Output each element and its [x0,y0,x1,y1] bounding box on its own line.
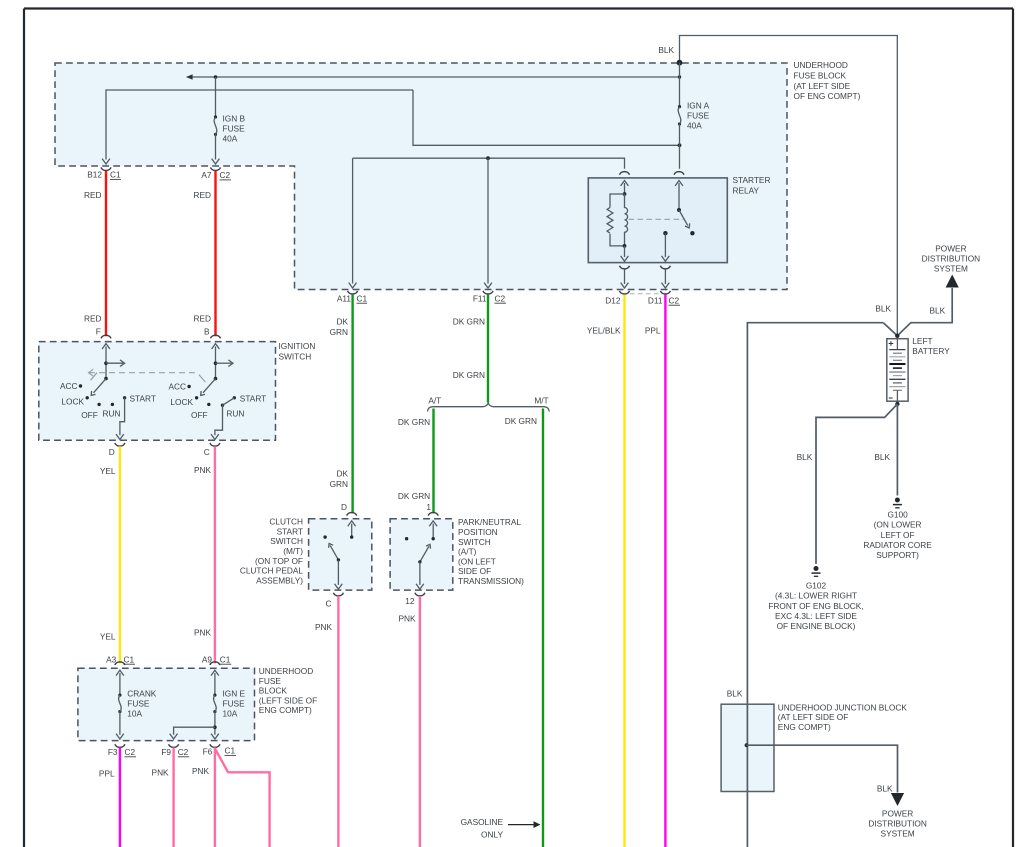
junction: junction block tap [745,743,749,747]
wire: feed line with left arrow (y=77) [187,76,680,78]
ignition sw1 ACC contact [79,384,82,387]
svg-text:C: C [204,447,210,457]
svg-text:BATTERY: BATTERY [912,346,950,356]
arrowhead ignition sw2 lever [201,391,205,395]
arrowhead P/N input (up) [429,521,437,526]
fuse IGN A 40A [678,105,681,108]
wire: relay output lead [664,233,666,257]
svg-text:C: C [326,598,332,608]
wire: output pin to D11 [664,270,666,285]
svg-text:40A: 40A [687,121,702,131]
ignition sw1 RUN contact [111,403,114,406]
wire PNK F6 down [214,747,216,847]
arrowhead into F11 connector [484,283,492,288]
svg-text:PNK: PNK [315,622,333,632]
svg-text:YEL: YEL [100,466,116,476]
svg-text:LEFT: LEFT [912,336,932,346]
connector arc ignition F [101,335,111,338]
wire PNK P/N 12 down [419,596,421,847]
clutch pivot [337,558,340,561]
svg-text:F6: F6 [203,746,213,756]
ignition sw1 OFF contact [97,403,100,406]
svg-text:BLK: BLK [797,452,813,462]
junction: coil/resistor top [623,192,627,196]
svg-text:M/T: M/T [534,395,548,405]
relay switch lever [679,210,688,225]
wire DK GRN F11 to split [487,295,489,403]
svg-text:PNK: PNK [192,766,210,776]
svg-text:UNDERHOOD JUNCTION BLOCK: UNDERHOOD JUNCTION BLOCK [778,703,908,713]
P/N input contact [432,537,435,540]
svg-text:LOCK: LOCK [170,397,193,407]
wire BLK battery neg to G100 [896,404,898,496]
wire: IGN B fuse wire [215,77,217,117]
split brace A/T-M/T [428,403,550,412]
svg-text:RUN: RUN [226,408,244,418]
arrowhead coil lead at box bottom [621,256,629,261]
junction: BLK feed enters fuse block [677,60,683,66]
svg-text:C2: C2 [495,293,506,303]
connector arc clutch D [347,512,357,515]
connector C2 dashed link D12-D11 [630,293,660,295]
battery U1 (LEFT BATTERY) box [887,339,908,402]
starter relay box [588,178,727,263]
svg-text:OFF: OFF [191,410,208,420]
wire junction block to power distribution (bottom) [747,745,898,792]
junction: F11 branch on relay feed line [486,156,490,160]
svg-text:CLUTCH: CLUTCH [269,517,303,527]
ignition sw1 START contact [123,396,126,399]
ground G102 symbol [814,566,819,571]
connector arc clutch C [333,593,343,596]
svg-text:SYSTEM: SYSTEM [934,264,968,274]
svg-text:TRANSMISSION): TRANSMISSION) [458,576,524,586]
arrowhead P/N output (down) [416,584,424,589]
svg-text:C2: C2 [178,747,189,757]
svg-text:DK GRN: DK GRN [453,370,485,380]
arrowhead into A11 connector [349,283,357,288]
svg-text:ACC: ACC [60,381,78,391]
wire through junction block [746,704,748,791]
wire: relay coil bottom lead [624,246,626,257]
svg-text:C1: C1 [220,654,231,664]
svg-text:FUSE BLOCK: FUSE BLOCK [794,71,847,81]
svg-text:F11: F11 [473,294,487,304]
battery + mark [889,341,894,346]
svg-text:(ON LOWER: (ON LOWER [874,520,922,530]
wire PNK F6 jog right & down [215,749,270,847]
svg-text:RED: RED [193,313,211,323]
wire crank fuse top lead [119,673,121,695]
svg-text:DK GRN: DK GRN [398,417,430,427]
svg-text:D: D [341,502,347,512]
wire: A11 branch [352,158,354,283]
junction: battery positive node [895,334,899,338]
wire PNK F9 down [172,747,174,847]
ground G100 symbol [895,498,900,503]
svg-text:A3: A3 [106,654,117,664]
svg-text:RADIATOR CORE: RADIATOR CORE [863,540,932,550]
wire: relay coil top lead [624,183,626,194]
svg-text:C1: C1 [225,746,236,756]
svg-text:C2: C2 [125,747,136,757]
ignition sw1 lever [94,379,107,393]
mechanical linkage (dashed) between switch halves [89,372,195,374]
arrowhead output lead at box bottom [662,256,670,261]
svg-text:BLK: BLK [874,452,890,462]
arrowhead ignition sw1 lever [91,391,95,395]
svg-text:RED: RED [193,190,211,200]
svg-text:FUSE: FUSE [259,676,282,686]
svg-text:(A/T): (A/T) [458,547,477,557]
svg-text:BLOCK: BLOCK [259,686,288,696]
svg-text:START: START [130,393,156,403]
ignition switch box [39,342,276,441]
underhood fuse block (top) body [55,63,787,290]
wire PNK clutch C down [337,596,339,847]
svg-text:PPL: PPL [645,326,661,336]
svg-text:1: 1 [426,502,431,512]
svg-text:BLK: BLK [727,689,743,699]
battery bottom stub [896,390,898,404]
svg-text:(ON TOP OF: (ON TOP OF [255,556,303,566]
svg-text:F: F [96,326,101,336]
svg-text:(M/T): (M/T) [283,546,303,556]
wire BLK battery neg to G102 [816,404,897,564]
wire ignition sw1 START to D [120,398,125,436]
svg-text:C1: C1 [357,293,368,303]
wire: relay switch input lead [678,183,680,210]
svg-text:PARK/NEUTRAL: PARK/NEUTRAL [458,517,521,527]
svg-text:YEL: YEL [100,631,116,641]
svg-text:PNK: PNK [194,628,212,638]
svg-text:CLUTCH PEDAL: CLUTCH PEDAL [240,566,304,576]
svg-text:PNK: PNK [194,465,212,475]
fuse CRANK 10A [118,694,121,697]
svg-text:A7: A7 [201,170,212,180]
svg-text:START: START [277,526,303,536]
svg-text:PPL: PPL [99,768,115,778]
gasoline-only pointer [508,824,535,826]
svg-text:GRN: GRN [330,479,348,489]
resistor (relay suppression) [610,194,625,208]
svg-text:F3: F3 [108,747,118,757]
relay stationary contact [690,231,694,235]
svg-text:FUSE: FUSE [687,111,710,121]
wire IGN E fuse top lead [214,673,216,695]
wire: BLK battery feed (top) [680,36,898,336]
arrowhead to power distribution (up) [946,275,959,288]
junction: feed line meets IGN A wire [678,75,681,78]
svg-text:ONLY: ONLY [481,829,503,839]
svg-text:EXC 4.3L: LEFT SIDE: EXC 4.3L: LEFT SIDE [775,611,857,621]
arrowhead into A7 connector [212,159,220,164]
svg-text:12: 12 [405,596,415,606]
wire clutch output lead [337,560,339,585]
wire ignition sw2 START to C [215,398,234,436]
connector arc F9 [169,744,179,747]
svg-text:SWITCH: SWITCH [458,537,491,547]
arrowhead F9 output (down) [170,734,178,739]
connector arc below relay coil pin [620,266,630,269]
wire YEL/BLK D12 down [623,295,625,847]
svg-text:SYSTEM: SYSTEM [881,829,915,839]
svg-text:BLK: BLK [877,784,893,794]
battery - mark [889,397,893,399]
svg-text:PNK: PNK [398,614,416,624]
svg-text:FUSE: FUSE [127,699,150,709]
connector arc A3 [115,662,125,665]
park/neutral position switch box [390,519,453,590]
wire PNK ignition C to A9 [214,446,216,663]
wire: coil pin to D12 [624,270,626,285]
wire branch to power distribution (top right) [897,288,952,336]
underhood fuse block (lower) body [78,668,255,740]
svg-text:DISTRIBUTION: DISTRIBUTION [922,253,981,263]
svg-text:DK GRN: DK GRN [453,316,485,326]
arrowhead ignition sw2 output [211,434,219,439]
wire battery positive merge [883,323,897,336]
svg-text:ACC: ACC [168,382,186,392]
svg-text:BLK: BLK [875,304,891,314]
svg-text:OF ENGINE BLOCK): OF ENGINE BLOCK) [777,621,856,631]
wire IGN E fuse bottom lead [214,712,216,735]
svg-text:LEFT OF: LEFT OF [881,530,915,540]
svg-text:C2: C2 [220,170,231,180]
arrowhead clutch lever [329,543,334,547]
arrowhead on feed line [186,74,192,80]
ignition sw2 ACC contact [187,385,190,388]
P/N open contact [405,537,408,540]
connector arc P/N pin 12 [415,593,425,596]
svg-text:DISTRIBUTION: DISTRIBUTION [868,818,927,828]
connector arc ignition C [210,443,220,446]
svg-text:B12: B12 [87,170,102,180]
svg-text:RED: RED [84,313,102,323]
svg-text:CRANK: CRANK [127,689,157,699]
connector D12 arcs [620,291,630,294]
svg-text:PNK: PNK [152,768,170,778]
svg-text:(LEFT SIDE OF: (LEFT SIDE OF [259,695,317,705]
wire RED B12 to ignition F [105,171,107,337]
svg-text:UNDERHOOD: UNDERHOOD [794,60,848,70]
junction: y=145 line meets IGN A wire [678,143,682,147]
ignition sw2 OFF contact [207,403,210,406]
svg-text:A/T: A/T [428,395,441,405]
fuse IGN E 10A [213,694,216,697]
wire P/N input lead [432,524,434,539]
svg-text:SUPPORT): SUPPORT) [876,550,919,560]
svg-text:FUSE: FUSE [223,124,246,134]
svg-text:B: B [204,326,210,336]
clutch open contact [323,535,326,538]
connector arc above relay switch pin [674,172,684,175]
svg-text:RED: RED [84,190,102,200]
svg-text:IGN E: IGN E [223,689,246,699]
junction: IGN B wire on feed line [214,75,218,79]
wire BLK to junction block [747,323,883,847]
svg-text:BLK: BLK [658,45,674,55]
svg-text:POWER: POWER [935,243,966,253]
wire clutch input lead [351,524,353,538]
wire DK GRN A11 to clutch switch D [351,295,353,514]
svg-text:SIDE OF: SIDE OF [458,566,491,576]
connector arc A9 [210,662,220,665]
connector arc ignition D [115,443,125,446]
P/N pivot [418,560,421,563]
svg-text:STARTER: STARTER [733,175,771,185]
svg-text:DK GRN: DK GRN [505,416,537,426]
wire: IGN A fuse wire upper [679,63,681,107]
svg-text:FUSE: FUSE [223,699,246,709]
fuse IGN B 40A [214,115,217,118]
underhood junction block box [721,704,774,791]
arrowhead P/N lever [426,544,431,548]
connector arc P/N pin 1 [428,512,438,515]
arrowhead clutch output (down) [335,584,343,589]
svg-text:START: START [240,393,266,403]
svg-text:ENG COMPT): ENG COMPT) [259,705,312,715]
connector F11/C2 arcs [483,291,493,294]
arrowhead A9 input (up) [211,670,219,675]
P/N lever [420,546,429,562]
svg-text:POWER: POWER [882,808,913,818]
svg-text:D12: D12 [605,295,621,305]
junction: IGN E branch [213,725,217,729]
svg-text:DK: DK [336,316,348,326]
svg-text:SWITCH: SWITCH [270,536,303,546]
svg-text:YEL/BLK: YEL/BLK [587,326,621,336]
svg-text:BLK: BLK [930,306,946,316]
wire P/N output lead [419,562,421,585]
arrowhead into B12 connector [102,159,110,164]
arrowhead on linkage (left) [89,369,94,376]
ignition sw1 input arrow/wires [102,344,110,349]
svg-text:G100: G100 [887,510,908,520]
svg-text:GASOLINE: GASOLINE [461,817,504,827]
svg-text:D11: D11 [648,295,663,305]
svg-text:UNDERHOOD: UNDERHOOD [259,666,313,676]
svg-text:C2: C2 [669,295,680,305]
svg-text:(4.3L: LOWER RIGHT: (4.3L: LOWER RIGHT [775,591,857,601]
svg-text:D: D [109,447,115,457]
wire DK GRN M/T branch [542,409,544,847]
svg-text:LOCK: LOCK [61,397,84,407]
svg-text:DK: DK [336,469,348,479]
clutch start switch box [309,519,372,590]
wire: IGN B fuse to A7 connector [215,134,217,159]
arrowhead clutch input (up) [348,521,356,526]
wire PPL F3 down [119,747,121,847]
connector A7/C2 arcs [211,167,221,170]
wire: jog down to y=145 then to IGN A node [413,90,680,145]
svg-text:G102: G102 [806,581,827,591]
wire RED A7 to ignition B [214,171,216,337]
svg-text:OFF: OFF [81,410,98,420]
svg-text:(AT LEFT SIDE OF: (AT LEFT SIDE OF [778,712,849,722]
clutch input contact [350,535,353,538]
ignition sw2 LOCK contact [195,396,198,399]
svg-text:ENG COMPT): ENG COMPT) [778,722,831,732]
arrowhead A3 input (up) [116,670,124,675]
arrowhead F6 output (down) [211,734,219,739]
arrowhead relay switch pin (up) [675,181,683,186]
svg-text:10A: 10A [223,709,238,719]
svg-text:40A: 40A [223,134,238,144]
ignition sw1 LOCK contact [86,396,89,399]
wire branch to F9 [174,727,215,735]
svg-text:C1: C1 [110,170,121,180]
connector A11/C1 arcs [348,291,358,294]
wire DK GRN A/T branch [432,409,434,514]
arrowhead on relay lever [685,223,690,228]
arrowhead F3 output (down) [116,734,124,739]
ignition sw2 lever [203,379,216,393]
battery plates [889,349,905,351]
svg-text:RELAY: RELAY [733,185,760,195]
ignition sw2 RUN contact [221,404,224,407]
svg-text:C1: C1 [124,654,135,664]
svg-text:(ON LEFT: (ON LEFT [458,556,496,566]
junction: coil/resistor bottom [623,244,627,248]
arrowhead to power distribution (down) [891,793,904,806]
svg-text:GRN: GRN [330,327,348,337]
connector arc ignition B [211,335,221,338]
svg-text:F9: F9 [161,747,171,757]
svg-text:IGN B: IGN B [223,114,246,124]
arrowhead into D11 [662,283,670,288]
mechanical link coil-to-armature (dashed) [629,218,684,220]
wire: B12 branch (down from y=90 corner) [106,90,413,160]
wire PPL D11 down [664,295,666,847]
connector arc F3 [115,744,125,747]
svg-text:FRONT OF ENG BLOCK,: FRONT OF ENG BLOCK, [768,601,863,611]
connector B12/C1 arcs [101,167,111,170]
svg-text:RUN: RUN [103,408,121,418]
svg-text:DK GRN: DK GRN [398,491,430,501]
junction: relay switch pivot [677,208,681,212]
border frame [24,7,1013,9]
arrowhead relay coil pin (up) [621,181,629,186]
wire: IGN A fuse to relay switch [679,124,681,169]
svg-text:POSITION: POSITION [458,527,498,537]
svg-text:A11: A11 [337,294,352,304]
battery top stub [896,339,898,350]
svg-text:10A: 10A [127,709,142,719]
relay output post [663,231,667,235]
ignition sw2 input arrow/wires [212,344,220,349]
arrowhead into D12 [621,283,629,288]
wire crank fuse bottom lead [119,712,121,735]
connector D11/C2 arcs [660,291,670,294]
svg-text:(AT LEFT SIDE: (AT LEFT SIDE [794,81,851,91]
svg-text:SWITCH: SWITCH [279,351,312,361]
relay coil winding [625,194,628,246]
svg-text:ASSEMBLY): ASSEMBLY) [256,575,303,585]
svg-text:IGN A: IGN A [687,101,710,111]
arrowhead ignition sw1 output [116,434,124,439]
ignition sw2 START contact [233,396,236,399]
connector arc below relay output pin [660,266,670,269]
svg-text:IGNITION: IGNITION [279,341,316,351]
junction: battery negative node [895,402,899,406]
wire: F11 branch [487,158,489,283]
connector arc F6 [210,744,220,747]
wire: relay feed line (y=158) [353,158,625,169]
svg-text:OF ENG COMPT): OF ENG COMPT) [794,91,861,101]
clutch lever [330,545,338,560]
wire YEL ignition D to A3 [119,446,121,663]
